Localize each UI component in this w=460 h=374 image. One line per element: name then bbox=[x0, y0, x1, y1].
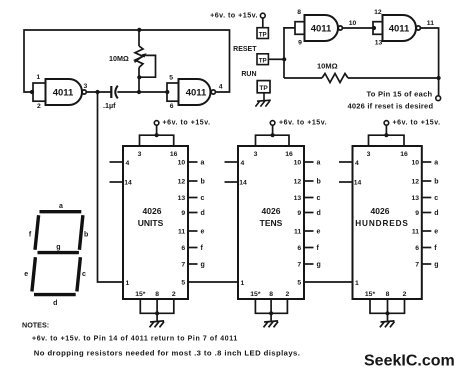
ground: HUNDREDS bbox=[381, 321, 395, 322]
op-amp U1b: NAND gate 4011 (pins 5,6 in, 4 out) bbox=[167, 74, 223, 110]
wire: clock output down to UNITS pin 1 bbox=[98, 93, 124, 282]
svg-text:10: 10 bbox=[349, 20, 357, 27]
svg-text:2: 2 bbox=[403, 291, 407, 298]
svg-text:3: 3 bbox=[138, 151, 142, 158]
wire: UNITS segment output stubs a-g bbox=[188, 161, 198, 163]
svg-text:8: 8 bbox=[297, 9, 301, 16]
segment a bbox=[40, 210, 82, 213]
svg-text:3: 3 bbox=[367, 151, 371, 158]
svg-text:f: f bbox=[434, 245, 437, 252]
segment b bbox=[79, 215, 83, 250]
node D: U1b input junction bbox=[165, 90, 169, 94]
svg-text:b: b bbox=[84, 232, 88, 239]
svg-text:c: c bbox=[201, 195, 205, 202]
svg-text:e: e bbox=[317, 229, 321, 236]
svg-text:14: 14 bbox=[239, 179, 247, 186]
svg-text:1: 1 bbox=[36, 74, 40, 81]
wire: oscillator feedback loop (top wire, left and right verticals) bbox=[24, 30, 230, 92]
svg-text:15*: 15* bbox=[250, 291, 261, 298]
svg-text:10: 10 bbox=[178, 160, 186, 167]
svg-text:9: 9 bbox=[297, 210, 301, 217]
wire: TENS ground bracket pins 15,8,2 bbox=[255, 299, 287, 313]
svg-text:+6v. to +15v. to Pin 14 of 401: +6v. to +15v. to Pin 14 of 4011 return t… bbox=[32, 336, 238, 343]
terminal: UNITS supply circle bbox=[154, 121, 159, 126]
svg-text:RUN: RUN bbox=[241, 71, 256, 78]
segment g bbox=[38, 251, 79, 254]
wire: reset node vertical to U2a input and down to R2 bbox=[284, 28, 295, 78]
wire: HUNDREDS segment output stubs a-g bbox=[422, 161, 432, 163]
svg-text:9: 9 bbox=[181, 210, 185, 217]
wire: TENS segment output stubs a-g bbox=[304, 161, 314, 163]
svg-text:7: 7 bbox=[415, 262, 419, 269]
op-amp U1a: NAND gate 4011 (pins 1,2 in, 3 out) bbox=[33, 74, 88, 110]
op-amp U2b: NAND gate 4011 (pins 12,13 in, 11 out) bbox=[373, 9, 434, 47]
svg-text:a: a bbox=[434, 160, 438, 167]
svg-text:11: 11 bbox=[294, 229, 301, 236]
svg-text:1: 1 bbox=[241, 280, 245, 287]
wire: UNITS unused stubs pins 4,14 bbox=[110, 161, 124, 163]
wire: U2a out to U2b in bbox=[343, 27, 374, 29]
svg-text:11: 11 bbox=[412, 229, 419, 236]
test point TP2 bbox=[257, 54, 268, 65]
svg-text:5: 5 bbox=[297, 280, 301, 287]
resistor R2 10M ohm bbox=[284, 62, 439, 83]
IC U3 4026 UNITS bbox=[110, 120, 211, 328]
node F: U2b input junction bbox=[372, 26, 376, 30]
wire: TP2 to reset line bbox=[269, 58, 284, 60]
terminal: TENS supply circle bbox=[270, 121, 275, 126]
svg-text:a: a bbox=[317, 160, 321, 167]
wire: HUNDREDS unused stubs pins 4,14 bbox=[339, 161, 353, 163]
svg-text:4011: 4011 bbox=[389, 23, 410, 34]
svg-text:+6v. to +15v.: +6v. to +15v. bbox=[210, 11, 258, 20]
svg-text:TP: TP bbox=[259, 31, 267, 38]
svg-text:e: e bbox=[434, 229, 438, 236]
segment e bbox=[32, 257, 36, 291]
svg-text:13: 13 bbox=[375, 40, 383, 47]
LED display DS1 (7-segment) bbox=[32, 212, 83, 295]
svg-text:c: c bbox=[317, 195, 321, 202]
svg-text:13: 13 bbox=[411, 195, 419, 202]
svg-text:To Pin 15 of each: To Pin 15 of each bbox=[367, 90, 433, 99]
ground: UNITS bbox=[150, 321, 164, 322]
svg-text:.1µf: .1µf bbox=[103, 101, 116, 110]
svg-text:15*: 15* bbox=[365, 291, 376, 298]
ground: TENS bbox=[264, 321, 278, 322]
terminal: HUNDREDS supply circle bbox=[384, 121, 389, 126]
svg-text:TP: TP bbox=[259, 58, 267, 65]
svg-text:4011: 4011 bbox=[53, 88, 74, 99]
svg-text:4: 4 bbox=[126, 160, 130, 167]
svg-text:7: 7 bbox=[297, 262, 301, 269]
svg-text:12: 12 bbox=[411, 179, 419, 186]
svg-text:9: 9 bbox=[415, 210, 419, 217]
svg-text:g: g bbox=[317, 262, 321, 269]
svg-text:16: 16 bbox=[170, 151, 178, 158]
svg-text:3: 3 bbox=[254, 151, 258, 158]
svg-text:b: b bbox=[434, 179, 438, 186]
svg-text:12: 12 bbox=[294, 179, 302, 186]
svg-text:f: f bbox=[317, 245, 320, 252]
IC U5 4026 HUNDREDS bbox=[339, 120, 441, 328]
svg-text:+6v. to +15v.: +6v. to +15v. bbox=[163, 120, 211, 127]
svg-text:16: 16 bbox=[400, 151, 408, 158]
svg-text:SeekIC.com: SeekIC.com bbox=[364, 353, 455, 370]
svg-text:b: b bbox=[201, 179, 205, 186]
svg-text:NOTES:: NOTES: bbox=[22, 320, 49, 329]
svg-text:e: e bbox=[24, 271, 28, 278]
svg-text:g: g bbox=[201, 262, 205, 269]
capacitor C1 .1uf bbox=[103, 86, 118, 110]
svg-text:6: 6 bbox=[181, 245, 185, 252]
svg-text:4026 if reset is desired: 4026 if reset is desired bbox=[348, 102, 434, 111]
wire: TENS pin 5 to HUNDREDS pin 1 bbox=[304, 281, 353, 283]
svg-text:+6v. to +15v.: +6v. to +15v. bbox=[279, 120, 327, 127]
svg-text:1: 1 bbox=[355, 280, 359, 287]
svg-text:13: 13 bbox=[178, 195, 186, 202]
svg-text:4026: 4026 bbox=[262, 206, 281, 216]
wire: HUNDREDS supply bracket pins 3,16 bbox=[369, 135, 405, 146]
svg-text:c: c bbox=[82, 271, 86, 278]
svg-text:4: 4 bbox=[219, 84, 223, 91]
svg-text:13: 13 bbox=[294, 195, 302, 202]
svg-text:9: 9 bbox=[298, 40, 302, 47]
svg-text:4011: 4011 bbox=[311, 23, 332, 34]
svg-text:14: 14 bbox=[124, 179, 132, 186]
wire: C1 to U1b input bbox=[117, 91, 167, 93]
svg-text:No dropping resistors needed f: No dropping resistors needed for most .3… bbox=[34, 348, 301, 357]
svg-text:f: f bbox=[29, 232, 32, 239]
node B: clock take-off junction bbox=[95, 90, 99, 94]
svg-text:5: 5 bbox=[181, 280, 185, 287]
wire: U1a output to capacitor C1 bbox=[86, 91, 110, 93]
svg-text:6: 6 bbox=[297, 245, 301, 252]
svg-text:d: d bbox=[434, 210, 438, 217]
svg-text:e: e bbox=[201, 229, 205, 236]
svg-text:RESET: RESET bbox=[233, 46, 257, 53]
svg-text:b: b bbox=[317, 179, 321, 186]
svg-text:c: c bbox=[434, 195, 438, 202]
svg-text:a: a bbox=[59, 203, 63, 210]
svg-text:4: 4 bbox=[241, 160, 245, 167]
svg-text:d: d bbox=[53, 300, 57, 307]
wire: HUNDREDS ground bracket pins 15,8,2 bbox=[370, 299, 405, 313]
svg-text:5: 5 bbox=[169, 74, 173, 81]
wire: TENS supply bracket pins 3,16 bbox=[256, 135, 290, 146]
svg-text:10MΩ: 10MΩ bbox=[317, 62, 338, 71]
svg-text:3: 3 bbox=[84, 83, 88, 90]
svg-text:d: d bbox=[317, 210, 321, 217]
node A: U1a input junction bbox=[30, 90, 34, 94]
svg-text:g: g bbox=[434, 262, 438, 269]
svg-text:a: a bbox=[201, 160, 205, 167]
terminal: reset output open circle bbox=[436, 96, 441, 101]
IC U4 4026 TENS bbox=[225, 120, 328, 328]
svg-text:4: 4 bbox=[355, 160, 359, 167]
svg-text:f: f bbox=[201, 245, 204, 252]
svg-text:UNITS: UNITS bbox=[138, 218, 164, 228]
test point TP1 bbox=[257, 28, 268, 39]
segment f bbox=[35, 215, 39, 250]
svg-text:10MΩ: 10MΩ bbox=[109, 54, 129, 63]
wire: UNITS pin 5 to TENS pin 1 bbox=[188, 281, 238, 283]
svg-text:1: 1 bbox=[126, 280, 130, 287]
segment d bbox=[34, 293, 76, 296]
svg-text:4026: 4026 bbox=[371, 206, 390, 216]
resistor R1 10M ohm trimmer bbox=[109, 28, 156, 92]
svg-text:TENS: TENS bbox=[260, 218, 283, 228]
svg-text:2: 2 bbox=[286, 291, 290, 298]
svg-text:16: 16 bbox=[285, 151, 293, 158]
test point TP3 bbox=[257, 81, 270, 93]
svg-text:10: 10 bbox=[294, 160, 302, 167]
svg-text:15*: 15* bbox=[135, 291, 146, 298]
svg-text:12: 12 bbox=[374, 9, 382, 16]
svg-text:6: 6 bbox=[415, 245, 419, 252]
svg-text:11: 11 bbox=[178, 229, 185, 236]
svg-text:g: g bbox=[56, 244, 60, 251]
wire: supply circle to TP1 bbox=[262, 18, 264, 28]
node C: R1 bottom junction on clock line bbox=[137, 90, 141, 94]
svg-text:6: 6 bbox=[170, 103, 174, 110]
svg-text:8: 8 bbox=[269, 291, 273, 298]
svg-text:HUNDREDS: HUNDREDS bbox=[355, 219, 409, 228]
terminal: supply open circle bbox=[260, 13, 265, 18]
node G: reset feedback junction bbox=[437, 76, 441, 80]
ground: under TP3 bbox=[255, 93, 270, 107]
wire: UNITS supply bracket pins 3,16 bbox=[140, 135, 174, 146]
svg-text:8: 8 bbox=[155, 291, 159, 298]
svg-text:2: 2 bbox=[172, 291, 176, 298]
svg-text:10: 10 bbox=[411, 160, 419, 167]
svg-text:2: 2 bbox=[37, 103, 41, 110]
svg-text:11: 11 bbox=[427, 20, 434, 27]
svg-text:12: 12 bbox=[178, 179, 186, 186]
segment c bbox=[77, 257, 81, 291]
svg-text:4026: 4026 bbox=[143, 206, 162, 216]
svg-text:d: d bbox=[201, 210, 205, 217]
svg-text:8: 8 bbox=[386, 291, 390, 298]
label: notes bbox=[22, 320, 300, 357]
node E: reset line junction bbox=[282, 57, 286, 61]
svg-text:7: 7 bbox=[181, 262, 185, 269]
svg-text:+6v. to +15v.: +6v. to +15v. bbox=[393, 120, 441, 127]
op-amp U2a: NAND gate 4011 (pins 8,9 in, 10 out) bbox=[295, 9, 356, 46]
labels: segment letters bbox=[24, 203, 88, 307]
wire: UNITS ground bracket pins 15,8,2 bbox=[140, 299, 174, 313]
svg-text:14: 14 bbox=[354, 179, 362, 186]
wire: U2b output down to reset terminal bbox=[421, 28, 439, 96]
svg-text:TP: TP bbox=[259, 85, 268, 92]
svg-text:4011: 4011 bbox=[186, 88, 207, 99]
wire: TENS unused stubs pins 4,14 bbox=[225, 161, 239, 163]
